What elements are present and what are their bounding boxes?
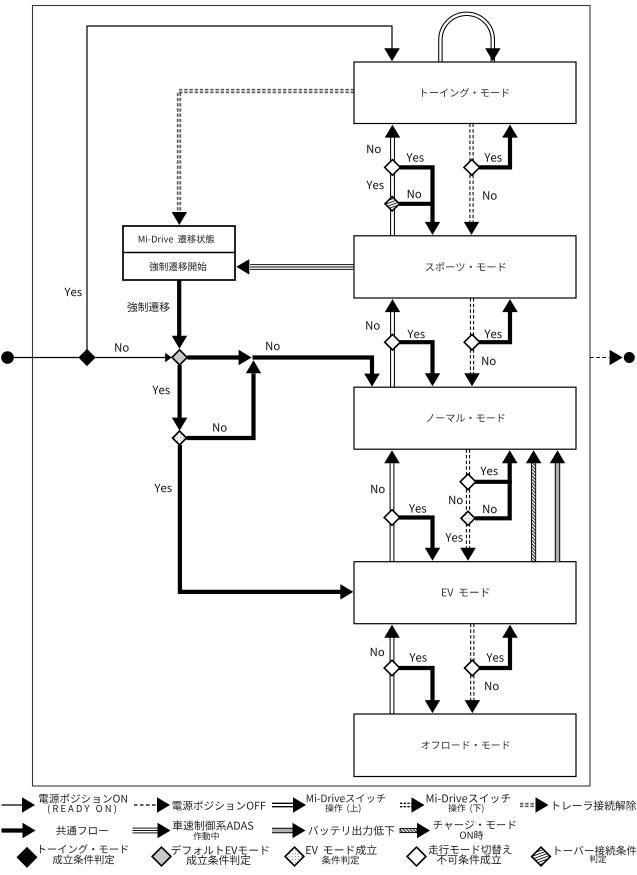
wire Yes return (thick) up into towing [479, 125, 518, 168]
wire Mi-Drive-switch-up (double line) sports to towing [385, 125, 400, 236]
wire Yes return (thick) down into normal [400, 342, 441, 386]
legend: power-position-OFF arrow (dashed) [134, 797, 170, 813]
legend label チャージ・モードON時 [434, 820, 516, 829]
label No (junction left) [266, 342, 279, 351]
legend: default-EV-condition diamond (gray) [152, 847, 171, 866]
legend label 共通フロー [56, 826, 108, 836]
wire Mi-Drive-switch-down (dashed double) towing to sports [464, 124, 479, 235]
wire Yes return (thick) up into normal [475, 450, 518, 482]
label Yes [409, 653, 426, 662]
label Yes [409, 504, 426, 513]
state box EV モード [354, 562, 576, 624]
decision mode-switch-inhibit (white diamond) on up line [385, 334, 401, 350]
legend label EVモード成立条件判定 [306, 845, 376, 855]
legend: charge-mode-ON arrow (hatched bar) [400, 823, 430, 838]
wire No return from towbar diamond (thick) [399, 202, 433, 206]
legend: battery-output-low arrow (gray bar) [272, 823, 306, 838]
label No [449, 496, 462, 505]
outer boundary rect [33, 6, 591, 787]
label Yes [484, 153, 501, 162]
decision towbar-connection (hatched diamond) [385, 197, 399, 211]
wire trailer-disconnect (fine dashed) towing to Mi-Drive box [172, 89, 354, 225]
end node (filled circle) [624, 352, 635, 363]
self-loop on towing mode (double arc) [439, 12, 501, 62]
wire Yes return (thick) down into EV [399, 518, 440, 561]
label Yes (D3 down) [154, 484, 171, 493]
wire No return (thick) joining up line [475, 480, 510, 518]
legend label 電源ポジションON (READY ON) [39, 794, 127, 804]
wire to end node (dashed) [590, 357, 609, 359]
decision D2 default-EV condition (gray diamond) [172, 350, 187, 365]
legend: power-position-ON arrow [2, 797, 36, 813]
wire D1 up to towing mode (thin, elbow) [87, 26, 400, 351]
label No (D1 right) [115, 343, 128, 352]
wire D2 No (thick) to junction [188, 350, 252, 365]
label No [408, 190, 421, 199]
legend: switch-inhibit diamond (white) [407, 847, 426, 866]
decision mode-switch-inhibit (white diamond) on down line [464, 334, 480, 350]
wire Mi-Drive-switch-up (double line) normal to sports [385, 299, 400, 387]
wire Yes return (thick) down into off [399, 668, 440, 713]
legend: trailer-disconnect arrow (fine triple dashed) [520, 797, 549, 813]
legend label デフォルトEVモード成立条件判定 [172, 845, 269, 855]
wire Mi-Drive-switch-up (double line) off to ev [384, 625, 400, 714]
decision mode-switch-inhibit (white diamond) [464, 160, 480, 176]
wire Mi-Drive-switch-up (double line) EV to normal [384, 450, 400, 561]
decision EV-mode condition (dotted diamond) on down line [461, 511, 475, 525]
wire D1 to default-EV diamond [95, 353, 172, 362]
label Yes (D2 down) [152, 386, 169, 395]
legend label 電源ポジションOFF [173, 801, 266, 811]
wire Yes return (thick) down into sports [400, 167, 441, 235]
legend: towing-mode-condition diamond (black) [18, 848, 37, 867]
label Yes [480, 467, 497, 476]
label No (D3 right) [213, 423, 226, 432]
label No [485, 682, 498, 691]
label 強制遷移 [127, 302, 169, 312]
label No [483, 505, 496, 514]
state box スポーツ・モード [354, 236, 576, 298]
label No [483, 191, 496, 200]
decision mode-switch-inhibit (white diamond) [384, 510, 400, 526]
legend label 走行モード切替え不可条件成立 [428, 845, 511, 855]
legend: ADAS-active arrow (triple line) [133, 823, 171, 838]
legend: Mi-Drive-switch-down arrow (dashed double) [400, 797, 425, 813]
decision mode-switch-inhibit (white diamond) on down line [460, 474, 476, 490]
legend label Mi-Driveスイッチ操作(下) [427, 794, 511, 803]
legend label バッテリ出力低下 [308, 825, 394, 835]
legend label 車速制御系ADAS作動中 [173, 820, 254, 830]
label Yes [486, 653, 503, 662]
label No [371, 648, 384, 657]
label No [482, 357, 495, 366]
wire Mi-Drive-switch-down (dashed double) sports to normal [464, 298, 480, 386]
legend label トーバー接続条件判定 [555, 846, 636, 856]
label Yes [484, 330, 501, 339]
state box ノーマル・モード [354, 387, 576, 449]
wire junction to normal mode (thick elbow) [253, 358, 380, 387]
label No [367, 145, 380, 154]
legend: EV-mode-condition diamond (dotted) [285, 847, 304, 866]
legend: towbar-connection diamond (hatched) [532, 847, 551, 866]
label No [371, 485, 384, 494]
decision mode-switch-inhibit (white diamond) [385, 160, 401, 176]
decision mode-switch-inhibit (white diamond) on down line [465, 660, 481, 676]
end node arrow [610, 350, 623, 365]
wire Mi-Drive-switch-down (dashed double) normal to EV [460, 449, 476, 561]
legend label トーイング・モード成立条件判定 [40, 844, 128, 853]
wire start to towing-condition diamond [8, 357, 81, 359]
legend: common-flow arrow (thick) [2, 823, 36, 838]
decision mode-switch-inhibit (white diamond) on up line [384, 660, 400, 676]
wire D3 No (thick) right and up to junction [187, 360, 262, 438]
wire ADAS-active (triple line) sports to Mi-Drive box [236, 259, 354, 275]
wire battery-output-low (gray bar) EV to normal [550, 450, 565, 561]
legend: Mi-Drive-switch-up arrow (double) [272, 797, 306, 813]
wire forced-transition 強制遷移 (thick) down to D2 [172, 280, 188, 349]
start node (filled circle) [1, 351, 14, 364]
label Yes [406, 153, 423, 162]
label Yes [407, 330, 424, 339]
box Mi-Drive 遷移状態 / 強制遷移開始 [123, 226, 235, 280]
decision D1 towing-mode condition (black diamond) [80, 350, 95, 365]
state box トーイング・モード [354, 62, 576, 124]
legend label トレーラ接続解除 [554, 801, 636, 811]
wire Yes return (thick) up into sports [479, 299, 518, 342]
wire Yes return (thick) up into ev [479, 625, 518, 668]
label Yes [366, 181, 383, 190]
label Yes (D1 up) [64, 288, 81, 297]
label Yes [445, 533, 462, 542]
label No [366, 321, 379, 330]
wire charge-mode-ON (hatched bar) EV to normal [526, 450, 542, 561]
legend label Mi-Driveスイッチ操作(上) [307, 794, 385, 803]
wire D2 Yes (thick) down to D3 [172, 365, 188, 431]
state box オフロード・モード [354, 714, 576, 777]
decision D3 EV-mode condition (dotted diamond) [173, 431, 187, 445]
wire Mi-Drive-switch-down (dashed double) ev to off [465, 624, 481, 713]
wire D3 Yes (thick) down and right into EV mode [180, 445, 353, 600]
